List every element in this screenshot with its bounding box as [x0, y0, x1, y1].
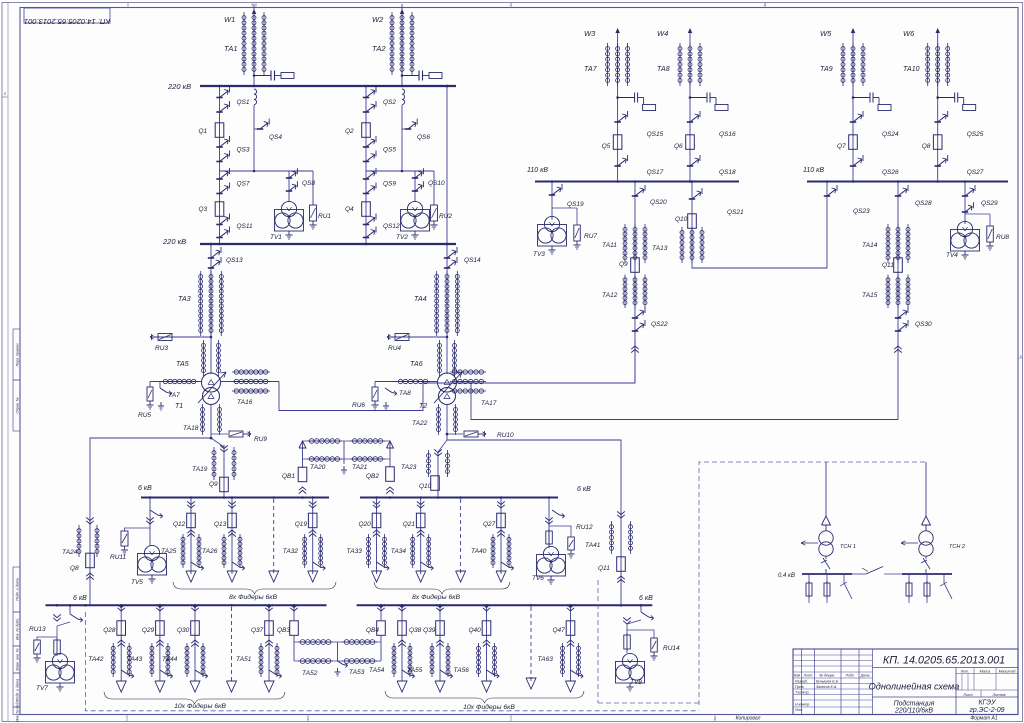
svg-text:W3: W3 [584, 29, 596, 38]
svg-text:W6: W6 [903, 29, 915, 38]
svg-text:2: 2 [713, 716, 717, 721]
svg-text:ТА42: ТА42 [88, 656, 104, 663]
svg-text:ТА20: ТА20 [310, 464, 326, 471]
svg-text:Q27: Q27 [483, 521, 496, 528]
svg-text:ТА10: ТА10 [903, 66, 920, 73]
svg-text:ТА22: ТА22 [412, 420, 428, 427]
svg-text:ТА16: ТА16 [237, 399, 253, 406]
svg-text:Q1: Q1 [199, 128, 208, 135]
svg-text:TV5: TV5 [131, 579, 143, 586]
svg-text:RU3: RU3 [155, 345, 168, 352]
svg-text:Q38 Q39: Q38 Q39 [409, 627, 436, 634]
svg-text:RU7: RU7 [584, 233, 597, 240]
svg-text:Q20: Q20 [359, 521, 372, 528]
svg-text:RU6: RU6 [352, 402, 365, 409]
svg-text:RU1: RU1 [318, 213, 331, 220]
svg-text:Подп. и дата: Подп. и дата [15, 578, 19, 601]
svg-text:ТА19: ТА19 [192, 466, 208, 473]
svg-text:Q8: Q8 [70, 565, 79, 572]
svg-text:Лист: Лист [803, 674, 813, 678]
svg-text:TV1: TV1 [270, 234, 282, 241]
svg-text:QB1: QB1 [282, 473, 295, 480]
svg-text:Q21: Q21 [403, 521, 416, 528]
svg-text:Инв. № подл.: Инв. № подл. [15, 700, 19, 722]
svg-text:110 кВ: 110 кВ [527, 167, 548, 174]
svg-text:Копировал: Копировал [736, 716, 761, 722]
svg-text:Q2: Q2 [345, 128, 354, 135]
svg-text:ТСН 1: ТСН 1 [840, 544, 856, 550]
svg-text:QS24: QS24 [882, 131, 899, 138]
svg-text:W4: W4 [657, 29, 668, 38]
svg-text:Q7: Q7 [837, 143, 846, 150]
svg-text:Q30: Q30 [177, 627, 190, 634]
svg-text:Q11: Q11 [882, 262, 894, 269]
svg-text:QS13: QS13 [226, 257, 243, 264]
svg-text:8х Фидеры 6кВ: 8х Фидеры 6кВ [229, 593, 277, 601]
svg-text:Q19: Q19 [295, 521, 308, 528]
svg-text:TV2: TV2 [396, 234, 408, 241]
svg-text:RU14: RU14 [663, 645, 680, 652]
svg-text:Кучышев Е.Б.: Кучышев Е.Б. [816, 680, 839, 684]
svg-text:QS19: QS19 [567, 201, 584, 208]
svg-text:Q47: Q47 [553, 627, 566, 634]
svg-text:QS3: QS3 [237, 147, 250, 154]
svg-text:ТА40: ТА40 [471, 548, 487, 555]
svg-text:QS9: QS9 [383, 181, 396, 188]
svg-text:Q9: Q9 [209, 481, 218, 488]
svg-text:ТА32: ТА32 [283, 548, 299, 555]
svg-text:RU4: RU4 [388, 345, 401, 352]
svg-text:QB3: QB3 [277, 627, 290, 634]
svg-text:ТА8: ТА8 [399, 390, 411, 397]
svg-text:Лист: Лист [962, 693, 972, 697]
svg-text:ТА56: ТА56 [454, 667, 470, 674]
svg-text:Q29: Q29 [142, 627, 155, 634]
svg-text:6 кВ: 6 кВ [577, 486, 591, 493]
svg-text:ТА15: ТА15 [862, 292, 878, 299]
svg-text:ТА3: ТА3 [178, 296, 191, 303]
svg-text:QS23: QS23 [853, 208, 870, 215]
svg-text:QS6: QS6 [417, 134, 430, 141]
svg-text:RU13: RU13 [29, 626, 46, 633]
svg-text:ТА41: ТА41 [585, 542, 601, 549]
svg-text:QS25: QS25 [967, 131, 984, 138]
svg-text:ТА7: ТА7 [584, 66, 598, 73]
svg-text:TV3: TV3 [533, 251, 545, 258]
svg-text:W1: W1 [224, 15, 235, 24]
svg-text:Q11: Q11 [598, 565, 610, 572]
svg-text:Зачесов Е.А.: Зачесов Е.А. [816, 685, 837, 689]
svg-text:QS15: QS15 [647, 131, 664, 138]
svg-text:TV7: TV7 [36, 685, 48, 692]
svg-text:Q40: Q40 [469, 627, 482, 634]
svg-text:ТА1: ТА1 [224, 44, 238, 53]
svg-text:Q28: Q28 [103, 627, 116, 634]
svg-text:КП. 14.0205.65.2013.001: КП. 14.0205.65.2013.001 [883, 655, 1005, 667]
svg-text:6 кВ: 6 кВ [639, 595, 653, 602]
svg-text:ТА51: ТА51 [236, 656, 252, 663]
svg-text:QS27: QS27 [967, 169, 984, 176]
svg-text:QS10: QS10 [428, 180, 445, 187]
svg-text:Q12: Q12 [173, 521, 186, 528]
svg-text:ТА18: ТА18 [183, 425, 199, 432]
svg-text:ТА6: ТА6 [410, 361, 423, 368]
svg-text:ТА8: ТА8 [657, 66, 670, 73]
svg-text:Q10: Q10 [419, 483, 432, 490]
svg-text:ТА9: ТА9 [820, 66, 833, 73]
svg-text:TV6: TV6 [532, 575, 544, 582]
svg-text:ТА55: ТА55 [407, 667, 423, 674]
svg-text:RU10: RU10 [497, 432, 514, 439]
svg-text:Q37: Q37 [251, 627, 264, 634]
svg-text:Подп. и дата: Подп. и дата [15, 679, 19, 702]
svg-text:ТСН 2: ТСН 2 [949, 544, 965, 550]
svg-text:QS30: QS30 [915, 321, 932, 328]
svg-text:Q10: Q10 [675, 216, 688, 223]
svg-text:RU5: RU5 [138, 412, 151, 419]
svg-text:ТА25: ТА25 [161, 548, 177, 555]
svg-text:RU12: RU12 [576, 524, 593, 531]
svg-text:Т.контр.: Т.контр. [795, 691, 810, 695]
svg-text:10х Фидеры 6кВ: 10х Фидеры 6кВ [174, 702, 226, 710]
svg-text:QS14: QS14 [464, 257, 481, 264]
svg-text:0,4 кВ: 0,4 кВ [778, 573, 795, 579]
svg-text:Справ. №: Справ. № [15, 397, 19, 413]
svg-text:Утв.: Утв. [795, 708, 803, 712]
svg-text:Q4: Q4 [345, 206, 354, 213]
svg-text:Н.контр.: Н.контр. [795, 703, 810, 707]
svg-text:QS11: QS11 [237, 223, 254, 230]
svg-text:Инв. № дубл.: Инв. № дубл. [15, 618, 19, 640]
svg-text:ТА52: ТА52 [302, 670, 318, 677]
svg-text:QS5: QS5 [383, 147, 396, 154]
svg-text:Лит.: Лит. [960, 670, 969, 674]
svg-text:ТА24: ТА24 [62, 549, 78, 556]
svg-text:QS21: QS21 [727, 209, 744, 216]
svg-text:ТА11: ТА11 [602, 242, 617, 249]
svg-text:ТА53: ТА53 [349, 669, 365, 676]
svg-text:QS26: QS26 [882, 169, 899, 176]
svg-text:10х Фидеры 6кВ: 10х Фидеры 6кВ [463, 703, 515, 711]
svg-text:Взам. инв. №: Взам. инв. № [15, 648, 19, 670]
svg-text:220 кВ: 220 кВ [167, 82, 191, 91]
svg-text:Формат А1: Формат А1 [970, 716, 998, 722]
svg-text:TV4: TV4 [946, 252, 958, 259]
svg-text:гр.ЭС-2-09: гр.ЭС-2-09 [970, 707, 1005, 714]
svg-text:Q8: Q8 [922, 143, 931, 150]
svg-text:ТА17: ТА17 [481, 400, 497, 407]
svg-text:КГЭУ: КГЭУ [979, 700, 997, 707]
svg-text:ТА13: ТА13 [652, 245, 668, 252]
svg-text:QS28: QS28 [915, 200, 932, 207]
svg-text:W5: W5 [820, 29, 832, 38]
svg-text:№ докум.: № докум. [819, 674, 835, 678]
svg-text:Масса: Масса [980, 670, 991, 674]
svg-text:QS29: QS29 [981, 200, 998, 207]
svg-text:TV8: TV8 [630, 679, 642, 686]
svg-text:QS22: QS22 [651, 321, 668, 328]
svg-text:QS16: QS16 [719, 131, 736, 138]
svg-text:220 кВ: 220 кВ [162, 237, 186, 246]
svg-text:QB2: QB2 [366, 473, 379, 480]
svg-text:ТА23: ТА23 [401, 464, 417, 471]
svg-text:2: 2 [763, 2, 767, 7]
svg-text:ТА2: ТА2 [372, 44, 386, 53]
svg-text:ТА4: ТА4 [414, 296, 427, 303]
svg-text:RU8: RU8 [996, 234, 1009, 241]
svg-text:QS7: QS7 [237, 181, 250, 188]
svg-text:Q13: Q13 [214, 521, 227, 528]
svg-text:QS2: QS2 [383, 99, 396, 106]
svg-text:Однолинейная схема: Однолинейная схема [869, 682, 960, 692]
svg-text:QS17: QS17 [647, 169, 664, 176]
svg-text:ТА5: ТА5 [176, 361, 189, 368]
svg-text:Разраб.: Разраб. [795, 680, 808, 684]
svg-text:Q9: Q9 [619, 261, 628, 268]
svg-text:QS4: QS4 [269, 134, 282, 141]
svg-text:RU9: RU9 [254, 436, 267, 443]
svg-text:8х Фидеры 6кВ: 8х Фидеры 6кВ [412, 593, 460, 601]
svg-text:ТА21: ТА21 [352, 464, 368, 471]
svg-text:ТА44: ТА44 [162, 656, 178, 663]
svg-text:6 кВ: 6 кВ [138, 485, 152, 492]
svg-text:Дата: Дата [860, 674, 870, 678]
svg-text:W2: W2 [372, 15, 384, 24]
svg-text:ТА54: ТА54 [369, 667, 385, 674]
svg-text:Q6: Q6 [674, 143, 683, 150]
svg-text:ТА63: ТА63 [538, 656, 554, 663]
svg-text:Подстанция: Подстанция [894, 700, 935, 708]
svg-text:220/110/6кВ: 220/110/6кВ [894, 708, 933, 715]
svg-text:Пров.: Пров. [795, 685, 804, 689]
svg-text:ТА14: ТА14 [862, 242, 878, 249]
svg-text:Q5: Q5 [602, 143, 611, 150]
svg-text:QB4: QB4 [366, 627, 379, 634]
svg-text:КП. 14.0205.65.2013.001: КП. 14.0205.65.2013.001 [24, 17, 110, 26]
svg-text:QS18: QS18 [719, 169, 736, 176]
svg-text:QS12: QS12 [383, 223, 400, 230]
svg-text:ТА34: ТА34 [391, 548, 407, 555]
svg-text:ТА26: ТА26 [202, 548, 218, 555]
svg-text:Перв. примен.: Перв. примен. [15, 343, 19, 367]
svg-text:Изм: Изм [794, 674, 801, 678]
svg-text:6 кВ: 6 кВ [73, 595, 87, 602]
svg-text:Подп.: Подп. [845, 674, 854, 678]
svg-text:Т1: Т1 [175, 403, 183, 410]
svg-text:RU11: RU11 [110, 554, 127, 561]
svg-text:RU2: RU2 [439, 213, 452, 220]
svg-text:QS1: QS1 [237, 99, 250, 106]
svg-text:Листов: Листов [991, 693, 1005, 697]
svg-text:110 кВ: 110 кВ [803, 167, 824, 174]
svg-text:ТА12: ТА12 [602, 292, 618, 299]
svg-text:Масштаб: Масштаб [999, 670, 1017, 674]
svg-text:Q3: Q3 [199, 206, 208, 213]
svg-text:QS20: QS20 [650, 199, 667, 206]
svg-text:ТА43: ТА43 [127, 656, 143, 663]
svg-text:ТА33: ТА33 [347, 548, 363, 555]
